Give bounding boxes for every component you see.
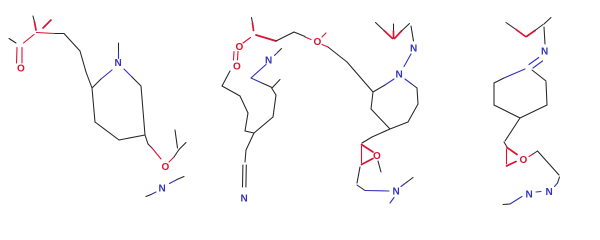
svg-text:N: N (159, 184, 166, 195)
svg-text:N: N (115, 58, 122, 69)
svg-text:O: O (236, 42, 244, 53)
svg-text:O: O (17, 64, 25, 75)
svg-text:N: N (393, 187, 400, 198)
svg-text:O: O (162, 162, 170, 173)
svg-text:N: N (241, 194, 248, 205)
svg-text:N: N (410, 44, 417, 55)
svg-text:O: O (233, 62, 241, 73)
svg-text:O: O (520, 155, 528, 166)
svg-text:N: N (396, 70, 403, 81)
svg-text:N: N (541, 47, 548, 58)
svg-text:O: O (314, 37, 322, 48)
svg-text:O: O (373, 151, 381, 162)
svg-text:N: N (526, 189, 533, 200)
svg-text:N: N (546, 187, 553, 198)
